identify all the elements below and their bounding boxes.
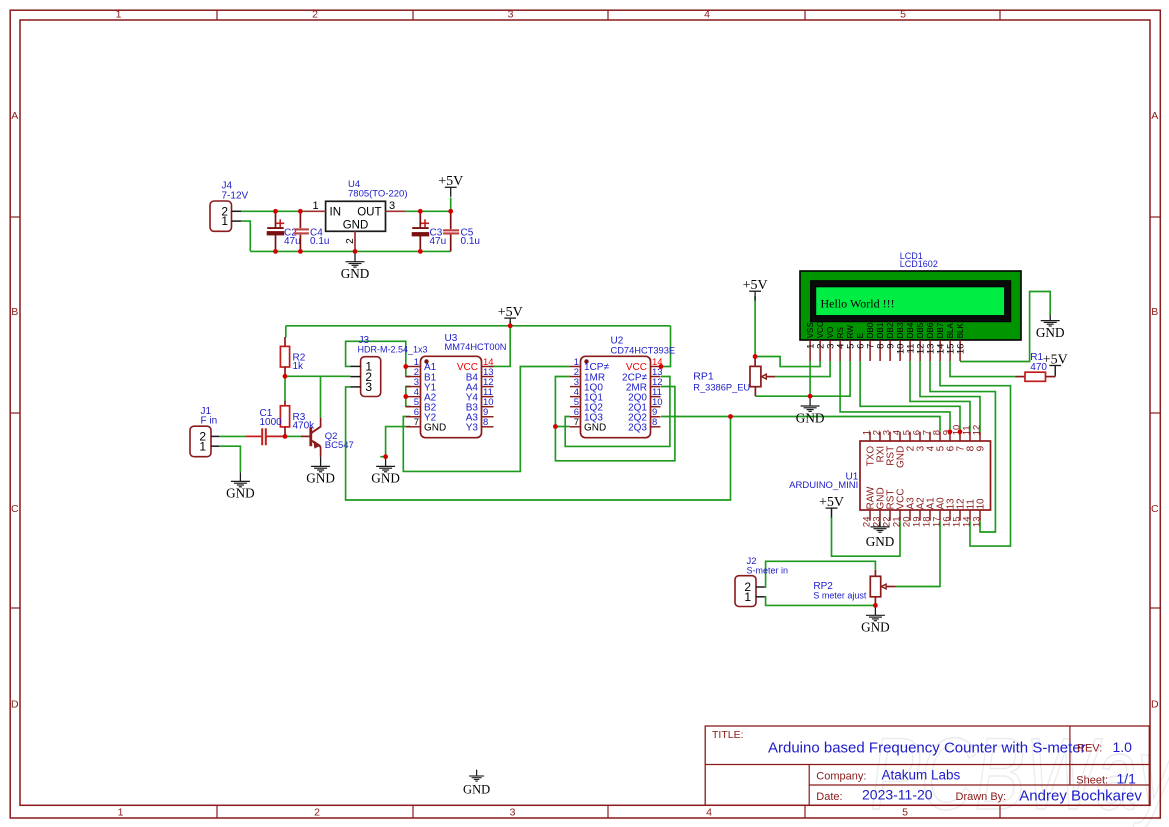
- svg-text:GND: GND: [861, 620, 890, 635]
- ground (psu): [341, 252, 370, 281]
- IC U3: [406, 356, 494, 437]
- svg-text:BLA: BLA: [946, 323, 955, 339]
- svg-text:GND: GND: [463, 783, 490, 797]
- LCD module LCD1: [800, 271, 1021, 361]
- svg-text:8: 8: [483, 417, 488, 428]
- svg-text:1: 1: [221, 214, 228, 228]
- ground (U1 pin23): [879, 521, 881, 527]
- junction U2 GND/1MR: [553, 424, 558, 429]
- svg-text:0.1u: 0.1u: [461, 236, 480, 247]
- svg-text:9: 9: [976, 445, 987, 451]
- capacitor C2: [267, 211, 284, 251]
- svg-text:DB5: DB5: [916, 322, 925, 338]
- svg-text:5: 5: [902, 806, 908, 818]
- svg-text:IN: IN: [330, 207, 342, 219]
- wire J3.3 long loop to 2Q2 net: [346, 387, 731, 500]
- svg-text:GND: GND: [306, 471, 335, 486]
- svg-text:3: 3: [510, 806, 516, 818]
- junction R2/R3: [283, 374, 288, 379]
- regulator U4: [305, 200, 406, 252]
- svg-text:CD74HCT393E: CD74HCT393E: [611, 346, 676, 356]
- svg-text:DB3: DB3: [896, 322, 905, 338]
- wire RP1 wiper to LCD VO: [775, 361, 830, 377]
- svg-text:DB1: DB1: [876, 322, 885, 338]
- wire LCD BLA to R1: [950, 361, 1015, 377]
- svg-text:GND: GND: [341, 266, 370, 281]
- wire LCD BLK to gnd loop: [960, 292, 1050, 362]
- junction RP1 top: [753, 354, 758, 359]
- svg-text:1: 1: [744, 590, 751, 604]
- svg-text:7805(TO-220): 7805(TO-220): [348, 189, 408, 200]
- svg-text:4: 4: [704, 9, 710, 21]
- wire LCD E to Arduino 10: [860, 361, 960, 432]
- junction +5V mid: [508, 323, 513, 328]
- svg-text:Company:: Company:: [816, 771, 866, 783]
- svg-text:RS: RS: [836, 327, 845, 338]
- wire J2.2 to RP2 top: [765, 561, 876, 587]
- svg-text:B: B: [11, 306, 18, 318]
- connector J2: [735, 576, 765, 607]
- svg-text:3: 3: [365, 380, 372, 394]
- svg-text:A: A: [1151, 110, 1158, 122]
- wire +5V riser: [450, 198, 452, 212]
- junction U1 pin10: [958, 429, 963, 434]
- wire ground rail: [250, 250, 450, 252]
- svg-text:DB4: DB4: [906, 322, 915, 338]
- svg-text:MM74HCT00N: MM74HCT00N: [445, 342, 507, 352]
- svg-text:DB7: DB7: [936, 322, 945, 338]
- svg-text:1: 1: [312, 200, 318, 212]
- svg-text:BC547: BC547: [325, 440, 354, 451]
- wire +5V to RP1: [754, 296, 756, 357]
- svg-text:RP1: RP1: [693, 371, 714, 383]
- junction C3 top: [418, 209, 423, 214]
- wire U2 1Q3 to 2CP loop: [565, 377, 670, 447]
- svg-text:+5V: +5V: [438, 174, 463, 189]
- svg-text:OUT: OUT: [357, 207, 381, 219]
- IC U1 ARDUINO_MINI: [860, 425, 991, 527]
- IC U2: [570, 356, 663, 437]
- svg-text:3: 3: [508, 9, 514, 21]
- svg-text:B: B: [1151, 306, 1158, 318]
- svg-text:5: 5: [900, 9, 906, 21]
- connector J3: [350, 357, 380, 397]
- capacitor C1: [246, 428, 286, 445]
- wire J1.2 to C1: [219, 435, 246, 437]
- power flag +5V (psu): [438, 174, 463, 197]
- +5V rail (mid): [286, 325, 671, 327]
- svg-text:0.1u: 0.1u: [310, 236, 329, 247]
- wire LCD VSS down: [809, 361, 811, 396]
- wire J2.1 to gnd rail: [765, 597, 876, 606]
- svg-text:13: 13: [971, 517, 982, 528]
- junction C2 bottom: [273, 249, 278, 254]
- svg-text:12: 12: [971, 425, 982, 436]
- svg-text:GND: GND: [371, 471, 400, 486]
- svg-text:BLK: BLK: [956, 323, 965, 339]
- wire RP1 top to LCD VCC: [755, 357, 820, 367]
- svg-text:Date:: Date:: [816, 791, 842, 803]
- wire U1 A0 to RP2 wiper: [896, 521, 941, 587]
- wire LCD DB4 to Arduino 11: [910, 361, 970, 432]
- svg-text:GND: GND: [584, 423, 606, 434]
- svg-text:1: 1: [199, 439, 206, 453]
- junction U3 pin1: [403, 364, 408, 369]
- power flag +5V (RP1): [743, 278, 768, 301]
- trimmer RP2: [870, 570, 895, 606]
- junction +5V/C5 top: [448, 209, 453, 214]
- wire U2 GND pin7: [555, 426, 570, 428]
- connector J1: [190, 426, 219, 457]
- svg-text:1: 1: [118, 806, 124, 818]
- svg-text:VSS: VSS: [806, 322, 815, 338]
- svg-text:47u: 47u: [284, 236, 301, 247]
- svg-text:+5V: +5V: [819, 495, 844, 510]
- junction C4 top: [298, 209, 303, 214]
- svg-text:10: 10: [976, 498, 987, 510]
- svg-text:LCD1602: LCD1602: [900, 259, 938, 269]
- wire U3 GND pin7: [386, 427, 411, 457]
- wire U4 OUT to +5V: [405, 210, 450, 212]
- svg-text:Hello World !!!: Hello World !!!: [821, 297, 895, 311]
- wire LCD DB5 to Arduino 12: [920, 361, 980, 432]
- wire +5V mid stub: [509, 322, 511, 326]
- wire rail to R2: [285, 326, 287, 338]
- junction 2Q2/J3.3: [728, 414, 733, 419]
- trimmer RP1: [750, 357, 775, 397]
- wire +5V drop to U3 VCC: [489, 326, 510, 367]
- junction C3 bottom: [418, 249, 423, 254]
- svg-text:2: 2: [314, 806, 320, 818]
- svg-text:DB2: DB2: [886, 322, 895, 338]
- wire U2 1MR to 2MR loop: [555, 377, 675, 461]
- capacitor C4: [294, 211, 309, 251]
- wire RP1 bottom gnd rail: [755, 361, 850, 396]
- svg-text:GND: GND: [1036, 325, 1065, 340]
- wire Y1 to A2: [406, 387, 411, 397]
- svg-text:8: 8: [652, 417, 657, 428]
- svg-text:DB0: DB0: [866, 322, 875, 338]
- ground (LCD BLK): [1036, 315, 1065, 341]
- junction C1/R3/Q2: [283, 434, 288, 439]
- resistor R2: [280, 337, 289, 376]
- junction U2 VCC: [659, 364, 664, 369]
- svg-text:Atakum Labs: Atakum Labs: [882, 768, 961, 783]
- svg-text:S meter ajust: S meter ajust: [813, 591, 867, 601]
- svg-text:GND: GND: [796, 410, 825, 425]
- svg-text:2023-11-20: 2023-11-20: [862, 787, 933, 803]
- capacitor C5: [443, 211, 459, 251]
- svg-text:GND: GND: [424, 423, 446, 434]
- svg-text:2Q3: 2Q3: [628, 423, 647, 434]
- wire Q2 collector riser: [320, 376, 322, 417]
- svg-text:C: C: [1151, 503, 1159, 515]
- svg-text:1: 1: [116, 9, 122, 21]
- svg-text:D: D: [11, 699, 19, 711]
- wire R2/R3 junction row to J3.2: [285, 375, 350, 377]
- svg-text:GND: GND: [343, 220, 369, 232]
- ground (floating, bottom center): [463, 770, 490, 797]
- svg-text:R_3386P_EU: R_3386P_EU: [693, 383, 750, 393]
- wire LCD DB6 loop to Arduino 13: [930, 361, 995, 532]
- svg-text:7: 7: [414, 417, 419, 428]
- junction U3 pin4: [403, 394, 408, 399]
- svg-text:E: E: [856, 333, 865, 338]
- svg-text:16: 16: [955, 344, 966, 355]
- svg-text:7: 7: [574, 417, 579, 428]
- ground (RP2): [861, 605, 890, 634]
- wire J3.1 loop to U3 A1: [346, 341, 406, 366]
- wire U3 Y2 to U2 1CP: [403, 367, 570, 472]
- resistor R3: [280, 401, 289, 437]
- junction C2 top: [273, 209, 278, 214]
- transistor Q2: [301, 418, 321, 457]
- svg-text:VCC: VCC: [816, 321, 825, 338]
- svg-text:REV:: REV:: [1077, 743, 1102, 755]
- svg-text:DB6: DB6: [926, 322, 935, 338]
- wire A2-B2 tie: [406, 397, 411, 407]
- svg-text:VO: VO: [826, 327, 835, 339]
- wire stub left of U3 gnd: [380, 456, 385, 458]
- svg-text:Y3: Y3: [466, 423, 479, 434]
- ground (RP1): [796, 396, 825, 425]
- wire +5V drop to U2 VCC: [661, 326, 671, 367]
- svg-text:S-meter in: S-meter in: [747, 566, 789, 576]
- wire +5V to U1 VCC pin21: [832, 517, 901, 556]
- svg-text:1k: 1k: [293, 361, 305, 372]
- svg-text:+5V: +5V: [743, 278, 768, 293]
- svg-text:F in: F in: [201, 415, 218, 426]
- svg-text:+5V: +5V: [1043, 352, 1068, 367]
- power flag +5V (mid): [498, 305, 523, 328]
- svg-text:+5V: +5V: [498, 305, 523, 320]
- wire junction to R3 top: [284, 376, 286, 401]
- svg-text:C: C: [11, 503, 19, 515]
- wire LCD DB7 loop to Arduino 14: [940, 361, 1011, 546]
- wire J4.2 to U4 IN rail: [241, 210, 305, 212]
- svg-text:ARDUINO_MINI: ARDUINO_MINI: [789, 480, 858, 491]
- resistor R1: [1015, 372, 1055, 381]
- svg-text:Drawn By:: Drawn By:: [956, 791, 1007, 803]
- junction LCD VSS/gnd: [808, 394, 813, 399]
- svg-text:1.0: 1.0: [1113, 739, 1133, 755]
- svg-text:2: 2: [345, 238, 356, 244]
- junction U3 gnd: [383, 454, 388, 459]
- svg-text:4: 4: [706, 806, 712, 818]
- wire LCD RS to Arduino 9: [840, 361, 950, 432]
- svg-text:GND: GND: [226, 486, 255, 501]
- wire J1.1 to gnd: [219, 446, 240, 472]
- ground (Q2): [306, 457, 335, 486]
- svg-text:3: 3: [389, 200, 395, 212]
- power flag +5V (U1): [819, 495, 844, 518]
- junction RP2 bottom: [873, 603, 878, 608]
- svg-text:1000: 1000: [260, 417, 283, 428]
- junction C4 bottom: [298, 249, 303, 254]
- svg-text:2: 2: [312, 9, 318, 21]
- svg-text:7-12V: 7-12V: [222, 190, 249, 201]
- svg-text:47u: 47u: [430, 236, 447, 247]
- wire C1 to Q2 base: [285, 435, 301, 437]
- svg-text:Sheet:: Sheet:: [1076, 774, 1108, 786]
- capacitor C3: [412, 211, 429, 251]
- power flag +5V (R1): [1043, 352, 1068, 375]
- ground (U3): [371, 457, 400, 486]
- svg-text:GND: GND: [866, 534, 895, 549]
- wire U2 2Q2 to Arduino pin8: [661, 417, 940, 432]
- connector J4: [210, 201, 241, 231]
- svg-text:1/1: 1/1: [1117, 770, 1137, 786]
- svg-text:Arduino based Frequency Counte: Arduino based Frequency Counter with S-m…: [768, 739, 1086, 756]
- svg-text:D: D: [1151, 699, 1159, 711]
- svg-text:HDR-M-2.54_1x3: HDR-M-2.54_1x3: [358, 344, 428, 354]
- ground bars (U1): [866, 527, 895, 549]
- junction U1 pin9: [948, 429, 953, 434]
- wire J4.1 down: [241, 221, 250, 251]
- svg-text:Andrey Bochkarev: Andrey Bochkarev: [1019, 788, 1142, 805]
- ground (J1): [226, 472, 255, 500]
- junction gnd (psu): [353, 249, 358, 254]
- title block: [705, 726, 1149, 805]
- svg-text:TITLE:: TITLE:: [712, 729, 744, 741]
- svg-text:A: A: [11, 110, 18, 122]
- svg-text:RW: RW: [846, 325, 855, 339]
- wire A1-B1 tie: [406, 367, 411, 377]
